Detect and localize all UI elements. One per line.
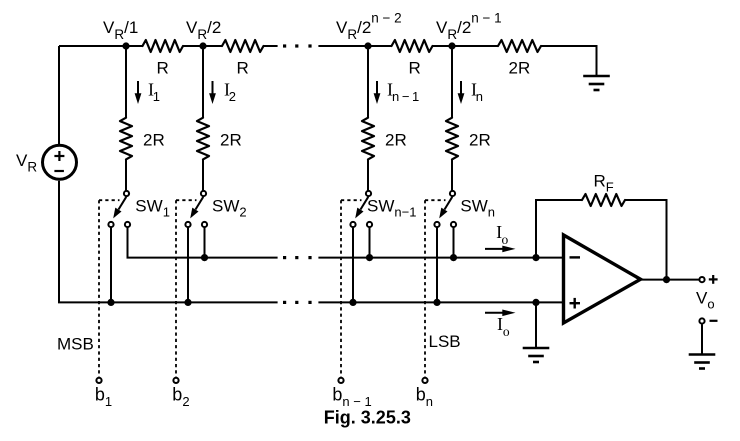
wire node 4 down to 2R [451,46,453,118]
junction dot feedback tap on inverting bus [532,254,539,261]
junction dot on lower bus at SW1 [107,299,114,306]
junction dot ground tap on non-inverting bus [532,299,539,306]
wire left vertical from top rail to VR source [58,46,60,144]
ground (below non-inverting bus) [523,347,550,350]
svg-text:n: n [476,89,483,104]
wire op-amp output [640,279,699,281]
wire non-inverting bus to ground [535,302,537,348]
wire 2R to switch SW4 [451,159,453,190]
wire top rail: corner to R [59,45,143,47]
wire 2R to switch SW2 [202,159,204,190]
wire SW1 right contact to inverting bus (corner) [127,228,129,258]
resistor 2R branch 1 [120,118,132,160]
junction dot on lower bus at SW2 [184,299,191,306]
wire node 1 down to 2R [125,46,127,118]
resistor R (between VR/2^n-2 and VR/2^n-1) [392,40,433,52]
terminal b3 [338,378,343,383]
non-inverting bus ellipsis dots [283,301,286,304]
svg-text:2R: 2R [469,131,491,150]
dashed control line b1 to SW1 [99,199,120,201]
svg-text:R: R [409,59,421,78]
wire SW1 left contact to lower bus [110,228,112,303]
wire node 3 down to 2R [367,46,369,118]
current arrow I3 [376,81,378,95]
junction dot on inverting bus at SW2 [201,254,208,261]
node VR/2 junction dot [199,42,206,49]
inverting input bus left segment [127,257,278,259]
current arrow Io (lower) [485,312,503,314]
junction dot output node [663,276,670,283]
dashed control line b3 to SW3 [341,199,362,201]
wire top rail node n to 2R [432,45,499,47]
wire SW3 right contact to inverting bus [369,228,371,258]
wire 2R to switch SW1 [125,159,127,190]
wire feedback right [625,200,667,280]
svg-text:LSB: LSB [429,332,461,351]
junction dot on inverting bus at SW3 [366,254,373,261]
wire SW4 left contact to lower bus [436,228,438,303]
svg-text:2: 2 [229,89,236,104]
ground (top right) [583,75,610,78]
current arrow Io (upper) [485,248,503,250]
svg-text:2R: 2R [143,131,165,150]
current arrow I2 [212,81,214,95]
svg-text:R: R [157,59,169,78]
junction dot on inverting bus at SW4 [450,254,457,261]
inverting bus ellipsis dots [283,256,286,259]
terminal b1 [96,378,101,383]
resistor R (between VR/2 and ellipsis) [222,40,264,52]
node VR/2^n-2 junction dot [364,42,371,49]
resistor 2R branch 3 [362,118,374,160]
dashed control line b2 to SW2 [176,199,197,201]
current arrow I1 [137,81,139,95]
junction dot on lower bus at SW3 [349,299,356,306]
op-amp U1 [564,235,641,323]
switch SW2 [185,191,207,227]
label - at output terminal [710,320,718,322]
op-amp inverting input minus sign [570,256,581,258]
svg-text:R: R [237,59,249,78]
svg-text:1: 1 [153,89,160,104]
output terminal + (open circle) [699,277,704,282]
wire SW2 left contact to lower bus [187,228,189,303]
wire top rail to ground [541,46,597,76]
wire SW2 right contact to inverting bus [204,228,206,258]
wire top rail VR/2 lead [183,45,223,47]
top rail ellipsis dots [283,44,286,47]
svg-text:2R: 2R [220,131,242,150]
svg-text:2R: 2R [385,131,407,150]
wire SW4 right contact to inverting bus [453,228,455,258]
wire feedback left [536,200,583,258]
non-inverting input bus left segment [58,301,278,303]
resistor 2R branch 4 [446,118,458,160]
svg-text:Fig. 3.25.3: Fig. 3.25.3 [324,408,411,428]
resistor RF [582,194,625,206]
ground (below output terminal) [689,353,716,356]
label + at output terminal [709,278,718,280]
resistor 2R branch 2 [197,118,209,160]
inverting input bus right segment [318,257,563,259]
resistor 2R terminating [498,40,541,52]
switch SW1 [108,191,130,227]
current arrow I4 [460,81,462,95]
wire output - terminal to ground [701,324,703,354]
dashed control line b4 to SW4 [425,199,446,201]
svg-text:n − 1: n − 1 [392,89,419,104]
wire top rail to break [263,45,278,47]
terminal b4 [422,378,427,383]
non-inverting input bus right segment [318,301,563,303]
node VR/1 junction dot [122,42,129,49]
switch SW3 [350,191,372,227]
wire top rail from break to node n-1 [318,45,392,47]
resistor R (between VR/1 and VR/2) [143,40,184,52]
op-amp non-inverting input plus sign [570,302,581,304]
svg-text:2R: 2R [509,59,531,78]
output terminal - (open circle) [699,318,704,323]
wire VR bottom to lower bus [58,181,60,303]
junction dot on lower bus at SW4 [433,299,440,306]
svg-text:o: o [503,324,510,339]
svg-text:o: o [502,232,509,247]
voltage source VR [43,145,77,179]
wire SW3 left contact to lower bus [352,228,354,303]
switch SW4 [434,191,456,227]
node VR/2^n-1 junction dot [448,42,455,49]
wire node 2 down to 2R [202,46,204,118]
wire 2R to switch SW3 [367,159,369,190]
terminal b2 [173,378,178,383]
svg-text:MSB: MSB [57,335,94,354]
